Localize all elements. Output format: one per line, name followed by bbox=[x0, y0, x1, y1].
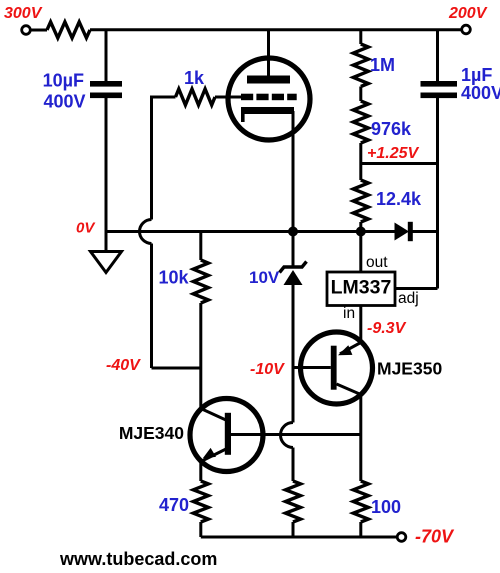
svg-text:1µF: 1µF bbox=[461, 65, 492, 85]
wire LM337 adj pin bbox=[395, 287, 438, 290]
resistor 1M bbox=[359, 30, 362, 44]
zener triangle (anode) bbox=[284, 270, 303, 285]
triode plate bbox=[247, 76, 290, 84]
resistor series dropper (300V rail) bbox=[47, 22, 90, 38]
wire from 300V terminal to dropping resistor bbox=[31, 29, 47, 32]
triode grid (dashed) bbox=[241, 94, 253, 101]
svg-text:10µF: 10µF bbox=[43, 71, 84, 91]
wire 1M to 976k bbox=[359, 87, 362, 102]
svg-text:10V: 10V bbox=[249, 268, 280, 287]
resistor 100 bbox=[353, 481, 368, 522]
transistor Q MJE350 (PNP) bbox=[301, 332, 373, 404]
wire MJE350 collector down to 100 resistor bbox=[359, 394, 362, 481]
regulator U LM337 box bbox=[327, 272, 395, 306]
diode (protection, across 12.4k) bbox=[395, 223, 410, 241]
zener diode 10V: wire from 0V node bbox=[292, 232, 295, 267]
MJE340 emitter arrow (NPN, outward) bbox=[203, 448, 216, 458]
wire triode cathode down to 0V node bbox=[292, 111, 295, 232]
svg-text:-9.3V: -9.3V bbox=[367, 320, 407, 337]
terminal -70V bbox=[397, 533, 406, 542]
svg-text:-10V: -10V bbox=[250, 361, 285, 378]
wire 1k grid stopper left lead bbox=[152, 97, 176, 99]
wire 1uF down through +1.25V node to adj corner bbox=[436, 98, 439, 289]
resistor 470 bbox=[193, 481, 208, 522]
wire hop (zener line jumps base wire) bbox=[280, 423, 293, 448]
triode cathode bbox=[241, 107, 294, 114]
svg-text:10k: 10k bbox=[158, 268, 189, 288]
MJE350 base bar bbox=[331, 346, 337, 390]
wire MJE340 emitter down to 470 bbox=[199, 462, 202, 482]
svg-text:400V: 400V bbox=[43, 92, 85, 112]
svg-text:12.4k: 12.4k bbox=[376, 189, 422, 209]
capacitor C 10uF/400V bbox=[90, 81, 122, 87]
resistor 1k grid stopper bbox=[176, 89, 216, 105]
svg-text:MJE340: MJE340 bbox=[119, 423, 184, 443]
wire hop (grid wire jumps 0V line) bbox=[140, 220, 152, 244]
transistor Q MJE340 (NPN) bbox=[190, 399, 263, 472]
svg-text:1k: 1k bbox=[184, 68, 205, 88]
wire right column to 1uF cap bbox=[436, 30, 439, 82]
resistor 10k bbox=[199, 232, 202, 261]
resistor 976k bbox=[353, 101, 368, 143]
MJE340 emitter diagonal bbox=[201, 449, 227, 462]
svg-text:MJE350: MJE350 bbox=[377, 359, 442, 379]
svg-text:-40V: -40V bbox=[106, 357, 141, 374]
wire LM337 in pin to MJE350 emitter bbox=[359, 306, 362, 344]
wire 1k to triode grid bbox=[215, 96, 241, 99]
resistor (middle, zener bias) bbox=[286, 481, 301, 522]
svg-text:out: out bbox=[366, 254, 388, 271]
wire MJE340 base to MJE350 collector line bbox=[231, 433, 361, 436]
svg-text:1M: 1M bbox=[370, 55, 395, 75]
svg-text:0V: 0V bbox=[76, 220, 96, 237]
triode cathode left stub bbox=[241, 114, 245, 122]
wire LM337 out pin bbox=[359, 232, 362, 273]
MJE340 base bar bbox=[225, 413, 231, 455]
svg-text:200V: 200V bbox=[448, 5, 488, 22]
wire zener anode down with hop over MJE340 base wire bbox=[292, 284, 295, 423]
terminal 300V input bbox=[22, 26, 31, 35]
svg-text:400V: 400V bbox=[461, 83, 500, 103]
zener cathode bar with bent ends bbox=[280, 262, 307, 273]
node junction: cathode/zener on 0V line bbox=[288, 227, 298, 237]
MJE350 emitter diagonal bbox=[340, 343, 361, 354]
svg-text:adj: adj bbox=[398, 290, 419, 307]
svg-text:-70V: -70V bbox=[415, 527, 455, 547]
svg-text:www.tubecad.com: www.tubecad.com bbox=[59, 549, 217, 569]
wire +1.25V horizontal bbox=[361, 162, 438, 165]
svg-text:470: 470 bbox=[159, 495, 189, 515]
wire grid feed: 1k down to -40V corner, with hop over 0V line bbox=[150, 97, 153, 220]
node junction: 12.4k/LM337-out on 0V line bbox=[356, 227, 366, 237]
wire -40V horizontal segment bbox=[152, 367, 201, 370]
triode envelope bbox=[228, 58, 310, 140]
capacitor C 1uF/400V bbox=[421, 81, 458, 87]
svg-text:+1.25V: +1.25V bbox=[367, 145, 419, 162]
svg-text:300V: 300V bbox=[4, 5, 43, 22]
triode plate lead to B+ rail bbox=[267, 30, 270, 79]
svg-text:LM337: LM337 bbox=[331, 277, 392, 299]
svg-text:100: 100 bbox=[371, 497, 401, 517]
wire 976k to +1.25V node bbox=[359, 143, 362, 180]
svg-text:976k: 976k bbox=[371, 119, 412, 139]
wire 0V line (ground bus to diode anode) bbox=[106, 230, 395, 233]
MJE350 collector diagonal bbox=[337, 384, 361, 395]
MJE340 collector diagonal bbox=[201, 409, 227, 421]
wire left column to 10uF cap bbox=[105, 30, 108, 82]
terminal 200V output bbox=[462, 25, 471, 34]
svg-text:in: in bbox=[343, 305, 355, 322]
wire 10k to MJE340 collector bbox=[199, 303, 202, 409]
MJE350 emitter arrow (PNP, into base) bbox=[338, 345, 352, 355]
wire top rail (300V/200V B+ rail) bbox=[90, 28, 462, 31]
resistor 12.4k bbox=[353, 180, 368, 222]
wire diode cathode to right column bbox=[412, 230, 438, 233]
wire MJE350 base to zener line bbox=[293, 366, 331, 369]
wire 10uF cap to ground / 0V node bbox=[105, 98, 108, 252]
ground symbol bbox=[91, 252, 122, 273]
wire bottom rail (-70V) bbox=[201, 536, 397, 539]
